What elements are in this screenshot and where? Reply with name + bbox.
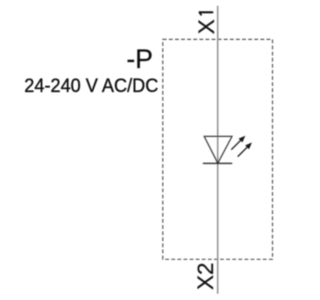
svg-text:X2: X2 (193, 262, 218, 290)
svg-text:24-240 V AC/DC: 24-240 V AC/DC (24, 75, 158, 97)
svg-text:X: X (194, 19, 219, 34)
svg-text:-P: -P (126, 44, 152, 74)
